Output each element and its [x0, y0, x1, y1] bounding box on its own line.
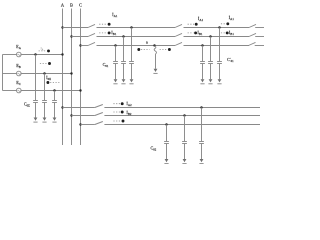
node busB-line1 junction	[70, 35, 72, 37]
wire line1 B bus section	[72, 36, 89, 38]
current arrow IA1 outer with label	[221, 15, 234, 25]
ground C01 phase A	[129, 79, 133, 84]
breaker line2 C	[95, 122, 103, 125]
wire line2 C bus section	[81, 124, 95, 126]
source EC AC circle	[17, 88, 22, 93]
ground C01 phase C	[113, 79, 117, 84]
ground C0S EA	[33, 118, 37, 123]
node a fault junction	[153, 44, 155, 46]
wire line1 C end stub	[255, 45, 264, 47]
ground fault branch	[153, 69, 157, 74]
capacitor C01 tap phase A	[129, 26, 134, 79]
node busC-line1 junction	[79, 44, 81, 46]
ground C02 phase B	[182, 159, 186, 164]
wire line2 A main section	[104, 107, 260, 109]
wire line1 B middle section	[97, 36, 176, 38]
bus B vertical wire	[71, 9, 73, 146]
arc at fault point	[154, 46, 156, 54]
wire EA right	[21, 54, 62, 56]
wire line1 B right section	[184, 36, 250, 38]
source EC label	[16, 80, 21, 86]
current arrow IA1 mid with label	[188, 16, 204, 26]
wire line1 C middle section	[97, 45, 176, 47]
wire neutral rail	[2, 55, 4, 91]
current arrow IA2 with label	[113, 101, 132, 107]
ground C02 phase C	[164, 159, 168, 164]
node a fault label	[146, 39, 148, 44]
node busC-line2 junction	[79, 123, 81, 125]
wire line2 B bus section	[72, 115, 95, 117]
wire line2 B main section	[104, 115, 260, 117]
svg-text:B: B	[70, 3, 73, 8]
breaker line1 A remote	[249, 24, 256, 27]
source EA AC circle	[17, 52, 22, 57]
wire fault branch	[155, 54, 157, 69]
node EB-bus junction	[70, 72, 72, 74]
capacitor C02 tap phase C	[164, 123, 169, 159]
wire EA left	[3, 54, 17, 56]
wire line1 A bus section	[63, 27, 89, 29]
current arrow IB1 with label	[99, 30, 117, 36]
ground C'01 phase A	[217, 79, 221, 84]
current arrow I0sum with label	[46, 75, 60, 84]
current arrow fault left	[137, 48, 149, 51]
source EB label	[16, 63, 21, 69]
source EA label	[16, 44, 22, 50]
bus C vertical wire	[80, 9, 82, 146]
wire line1 A end stub	[255, 27, 264, 29]
wire EC left	[3, 90, 17, 92]
capacitor C01 tap phase B	[121, 35, 126, 79]
wire line1 A middle section	[97, 27, 176, 29]
wire line1 C bus section	[81, 45, 89, 47]
current arrow IB source	[40, 62, 51, 65]
capacitor C0S tap EB	[42, 72, 47, 117]
current arrow IA source with label	[39, 45, 50, 52]
breaker line1 C remote	[249, 42, 256, 45]
svg-text:a: a	[146, 39, 148, 44]
node C bus label	[79, 3, 82, 8]
breaker line1 C bus side	[88, 42, 95, 45]
breaker line1 A bus side	[88, 24, 95, 27]
node A bus label	[61, 3, 65, 8]
capacitor C0S tap EA	[33, 53, 38, 117]
capacitor C02 tap phase B	[182, 114, 187, 159]
node EA-bus junction	[61, 53, 63, 55]
wire line1 A right section	[184, 27, 250, 29]
ground C01 phase B	[121, 79, 125, 84]
current arrow IA1 with label	[99, 12, 118, 25]
breaker line1 A mid	[175, 24, 182, 27]
breaker line2 B	[95, 113, 103, 116]
wire line2 C main section	[104, 124, 260, 126]
ground C02 phase A	[199, 159, 203, 164]
ground C'01 phase B	[208, 79, 212, 84]
ground C'01 phase C	[200, 79, 204, 84]
current arrow IB1 outer with label	[221, 30, 234, 36]
wire line1 C right section	[184, 45, 250, 47]
node B bus label	[70, 3, 73, 8]
current arrow IC2	[113, 120, 124, 123]
current arrow IB2 with label	[113, 110, 132, 116]
wire line2 A bus section	[63, 107, 95, 109]
current arrow fault right	[160, 48, 171, 51]
capacitor C'01 tap phase C	[200, 44, 205, 79]
bus A vertical wire	[62, 9, 64, 146]
node EC-bus junction	[79, 89, 81, 91]
capacitor C'01 value label	[227, 57, 234, 63]
wire EB left	[3, 73, 17, 75]
ground C0S EB	[42, 118, 46, 123]
breaker line1 C mid	[175, 42, 182, 45]
capacitor C02 value label	[151, 145, 157, 151]
ground C0S EC	[52, 118, 56, 123]
node busB-line2 junction	[70, 114, 72, 116]
wire EB right	[21, 73, 71, 75]
wire EC right	[21, 90, 80, 92]
wire line1 B end stub	[255, 36, 264, 38]
capacitor C'01 tap phase A	[217, 26, 222, 79]
source EB AC circle	[17, 71, 22, 76]
capacitor C01 tap phase C	[113, 44, 118, 79]
breaker line1 B remote	[249, 33, 256, 36]
capacitor C0S value label	[24, 101, 30, 107]
breaker line1 B mid	[175, 33, 182, 36]
capacitor C'01 tap phase B	[208, 35, 213, 79]
current arrow IB1 mid with label	[188, 30, 203, 36]
node busA-line2 junction	[61, 106, 63, 108]
breaker line2 A	[95, 105, 103, 108]
node busA-line1 junction	[61, 26, 63, 28]
breaker line1 B bus side	[88, 33, 95, 36]
capacitor C02 tap phase A	[199, 106, 204, 159]
capacitor C01 value label	[103, 62, 109, 68]
capacitor C0S tap EC	[52, 89, 57, 117]
svg-text:C: C	[79, 3, 82, 8]
